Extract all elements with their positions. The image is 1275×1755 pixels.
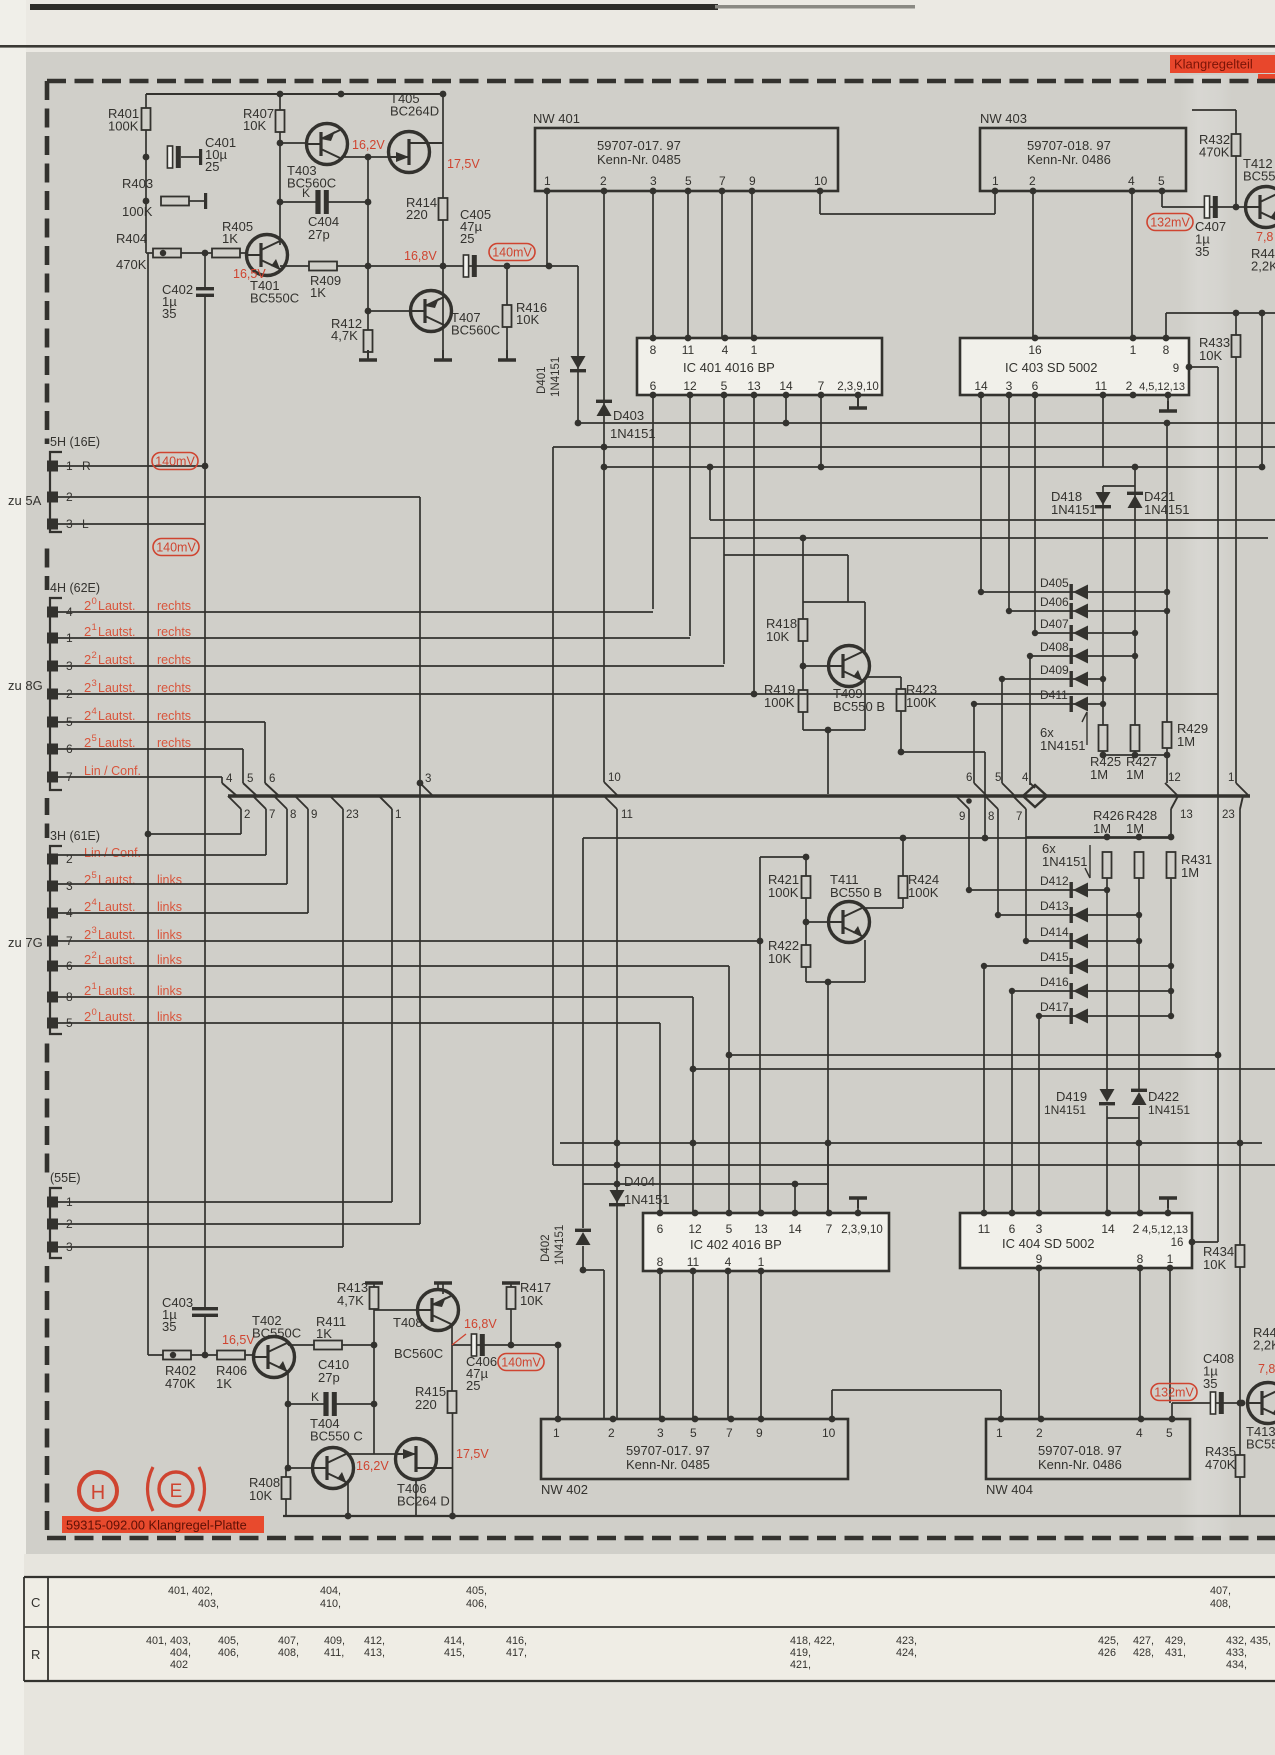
svg-text:1N4151: 1N4151	[1040, 738, 1086, 753]
wire C401 right	[181, 156, 199, 158]
ground IC403	[1159, 401, 1177, 411]
svg-text:100K: 100K	[908, 885, 939, 900]
wire D419-D422 tie row	[1107, 1117, 1139, 1119]
pin dot IC403 bottom x1035	[1032, 392, 1039, 399]
connector pin 4H.3	[47, 661, 58, 672]
svg-text:11: 11	[1095, 379, 1108, 393]
pin dot NW 1	[544, 188, 551, 195]
diode D407	[1070, 625, 1089, 641]
svg-text:5: 5	[247, 773, 253, 785]
svg-text:59707-018. 97: 59707-018. 97	[1027, 138, 1111, 153]
svg-text:13: 13	[754, 1222, 768, 1236]
signal label 2^0 Lautst links	[84, 1007, 136, 1024]
svg-text:6: 6	[650, 379, 657, 393]
svg-text:Kenn-Nr. 0485: Kenn-Nr. 0485	[597, 152, 681, 167]
junction y1165 x617	[614, 1162, 621, 1169]
connector pin 3H.6	[47, 961, 58, 972]
junction R403	[143, 198, 150, 205]
wire T411 base	[806, 921, 828, 923]
bus stub 5	[242, 749, 244, 783]
wire T408 emitter up	[442, 1284, 444, 1294]
svg-text:4,5,12,13: 4,5,12,13	[1139, 381, 1185, 393]
resistor R421	[802, 876, 811, 898]
ground under R412	[359, 350, 377, 360]
svg-text:100K: 100K	[906, 695, 937, 710]
pin dot IC404 bottom x1039	[1036, 1265, 1043, 1272]
junction R input	[202, 463, 209, 470]
svg-text:D417: D417	[1040, 1000, 1069, 1014]
svg-text:140mV: 140mV	[155, 454, 195, 468]
wire NW403 pin5 down	[1161, 191, 1163, 207]
svg-text:D403: D403	[613, 408, 644, 423]
wire R425 bottom	[1102, 751, 1104, 755]
wire D402 col upper	[582, 838, 584, 1228]
svg-text:405,: 405,	[218, 1635, 239, 1647]
svg-text:BC560C: BC560C	[287, 176, 336, 191]
svg-text:R: R	[31, 1647, 40, 1662]
wire IC401 gnd stem	[857, 395, 859, 406]
label R421	[768, 872, 799, 900]
svg-text:401, 403,: 401, 403,	[146, 1635, 191, 1647]
label R422	[768, 938, 799, 966]
svg-text:1: 1	[758, 1255, 765, 1269]
svg-text:9: 9	[1173, 363, 1179, 375]
wire C404 left	[280, 201, 316, 203]
wire line y313	[1166, 312, 1275, 314]
wire NW402 pin10 up	[831, 1390, 833, 1419]
svg-text:59707-017. 97: 59707-017. 97	[597, 138, 681, 153]
wire x443 to out	[442, 220, 444, 266]
wire R424 col	[902, 838, 904, 876]
svg-text:433,: 433,	[1226, 1647, 1247, 1659]
svg-text:5H (16E): 5H (16E)	[50, 435, 100, 449]
svg-text:3: 3	[66, 879, 73, 893]
pin dot IC404 top x984	[981, 1210, 988, 1217]
resistor R418	[799, 619, 808, 641]
svg-text:D409: D409	[1040, 663, 1069, 677]
signal label 2^3 Lautst rechts	[84, 678, 136, 695]
wire x1262 col	[1261, 313, 1263, 467]
pin dot IC402 top x761	[758, 1210, 765, 1217]
svg-text:16,8V: 16,8V	[404, 249, 437, 263]
connector pin 5H.1	[47, 461, 58, 472]
wire R432 col bottom	[1235, 156, 1237, 207]
label R403 value	[122, 204, 153, 219]
wire C410 col to T406 base	[373, 1404, 375, 1454]
junction D417 left	[1036, 1013, 1042, 1019]
junction x148-834	[145, 831, 152, 838]
label R427	[1126, 754, 1157, 782]
label R435	[1205, 1444, 1236, 1472]
wire R427 bottom	[1134, 751, 1136, 755]
resistor R401	[142, 108, 151, 130]
wire R424 bottom	[902, 898, 904, 908]
junction D411 right	[1100, 701, 1106, 707]
svg-text:13: 13	[747, 379, 761, 393]
svg-text:59315-092.00 Klangregel-Platt: 59315-092.00 Klangregel-Platte	[66, 1518, 247, 1533]
terminal bar R403	[204, 193, 207, 209]
label R423	[906, 682, 937, 710]
transistor T406	[396, 1439, 453, 1480]
wire R423 col bottom	[900, 711, 902, 752]
junction node input R	[202, 250, 209, 257]
svg-text:Klangregelteil: Klangregelteil	[1174, 57, 1253, 72]
label R425	[1090, 754, 1121, 782]
svg-text:NW 403: NW 403	[980, 111, 1027, 126]
wire x368 vertical	[367, 157, 369, 330]
stamp part number bar	[62, 1516, 264, 1533]
red banner Klangregelteil	[1170, 55, 1275, 79]
wire row D416	[1012, 990, 1171, 992]
svg-text:409,: 409,	[324, 1635, 345, 1647]
wire bottom rail	[283, 1515, 1275, 1517]
svg-text:4H (62E): 4H (62E)	[50, 581, 100, 595]
pin dot IC403 top x1133	[1130, 335, 1137, 342]
svg-text:zu 7G: zu 7G	[8, 935, 43, 950]
label T404	[310, 1416, 363, 1444]
wire x148 long column	[147, 253, 149, 1355]
network block NW403	[980, 128, 1186, 191]
wire NW401 pin1 col	[546, 191, 548, 266]
wire R416 gnd	[506, 327, 508, 350]
wire x420 long column	[419, 497, 421, 1224]
connector pin 4H.5	[47, 717, 58, 728]
wire R422 bottom	[805, 967, 807, 982]
wire C407 row	[1162, 206, 1245, 208]
wire x1107 lower	[1106, 1118, 1108, 1213]
svg-text:6: 6	[1032, 379, 1039, 393]
network block NW402	[541, 1419, 848, 1479]
bus diamond	[1023, 785, 1047, 807]
junction x828-982	[825, 979, 832, 986]
wire row y755	[1103, 754, 1167, 756]
svg-text:5: 5	[690, 1426, 697, 1440]
wire NW402 pin1 col	[557, 1345, 559, 1419]
capacitor C406	[471, 1334, 484, 1356]
ground IC401	[849, 398, 867, 408]
junction rail-R414	[440, 91, 447, 98]
transistor T408	[418, 1290, 459, 1331]
wire IC403 pin6 col	[1034, 395, 1036, 633]
wire 5H pin3 row L	[58, 523, 205, 525]
svg-text:411,: 411,	[324, 1647, 344, 1659]
svg-text:BC560C: BC560C	[394, 1346, 443, 1361]
svg-text:1: 1	[92, 981, 97, 992]
wire IC403 pin8 up	[1165, 313, 1167, 338]
wire row 2^2 links	[58, 965, 729, 967]
svg-text:1M: 1M	[1090, 767, 1108, 782]
wire R419 bottom	[802, 712, 804, 730]
wire stub2 jog	[148, 833, 241, 835]
svg-text:132mV: 132mV	[1150, 215, 1190, 229]
wire column x205 upper	[204, 253, 206, 289]
resistor R427	[1131, 725, 1140, 751]
capacitor C408	[1210, 1392, 1223, 1414]
resistor R402	[163, 1351, 191, 1360]
wire row 2^4 links	[58, 912, 308, 914]
junction D413 left	[995, 912, 1001, 918]
svg-text:13: 13	[1180, 809, 1193, 821]
svg-text:IC 401 4016 BP: IC 401 4016 BP	[683, 360, 775, 375]
pin dot IC401 bottom x858	[855, 392, 862, 399]
pin dot IC402 top x695	[692, 1210, 699, 1217]
wire NW401-IC401 col x688	[687, 191, 689, 338]
wire IC402 pin6 col	[659, 1023, 661, 1213]
wire line y1143	[560, 1142, 1262, 1144]
ic block IC401 4016BP	[637, 338, 882, 395]
svg-text:2: 2	[608, 1426, 615, 1440]
svg-text:419,: 419,	[790, 1647, 811, 1659]
svg-text:D402: D402	[540, 1235, 552, 1263]
resistor R434	[1236, 1245, 1245, 1267]
wire NW401-IC401 col x752	[751, 191, 753, 338]
svg-text:1: 1	[1167, 1252, 1174, 1266]
svg-text:9: 9	[749, 174, 756, 188]
svg-text:4,7K: 4,7K	[331, 328, 358, 343]
junction D408 left	[1027, 653, 1033, 659]
bus stub 10	[604, 782, 618, 796]
svg-text:5: 5	[92, 733, 97, 744]
svg-text:3: 3	[657, 1426, 664, 1440]
svg-text:links: links	[157, 928, 182, 942]
junction y837 b	[1136, 834, 1143, 841]
wire row D414	[1026, 940, 1139, 942]
junction T407 base	[365, 308, 372, 315]
label D418 value	[1051, 502, 1097, 517]
svg-text:0: 0	[92, 596, 97, 607]
svg-text:7,8: 7,8	[1256, 230, 1273, 244]
wire R411 row	[288, 1344, 374, 1346]
wire T404-T406 link	[347, 1453, 396, 1455]
resistor R422	[802, 945, 811, 967]
wire base row T402	[148, 1354, 253, 1356]
label D418	[1051, 489, 1082, 504]
pin dot IC404 top x1140	[1137, 1210, 1144, 1217]
svg-text:35: 35	[1195, 244, 1209, 259]
pin dot NW 9	[749, 188, 756, 195]
connector pin 3H.7	[47, 936, 58, 947]
pin dot IC402 bottom x660	[657, 1268, 664, 1275]
svg-text:7,8: 7,8	[1258, 1362, 1275, 1376]
svg-text:10K: 10K	[520, 1293, 543, 1308]
wire x848 to T409	[847, 555, 849, 602]
pin dot NW bottom n4	[1138, 1416, 1145, 1423]
wire row 2^0 links	[58, 1022, 660, 1024]
wire T411 emitter col	[864, 940, 866, 982]
svg-text:1: 1	[996, 1426, 1003, 1440]
label zu 5A	[8, 493, 42, 508]
transistor T404	[313, 1448, 354, 1489]
junction T409 base	[800, 663, 807, 670]
svg-text:100K: 100K	[122, 204, 153, 219]
pin dot NW bottom 10	[829, 1416, 836, 1423]
transistor T412	[1246, 187, 1275, 228]
junction T411 base	[803, 919, 810, 926]
svg-text:3: 3	[1006, 379, 1013, 393]
pin dot NW 10	[817, 188, 824, 195]
junction R414 bottom	[440, 263, 447, 270]
pin dot IC404 bottom x1140	[1137, 1265, 1144, 1272]
wire NW402 pin3 col	[659, 1271, 661, 1419]
svg-text:1K: 1K	[216, 1376, 232, 1391]
svg-text:415,: 415,	[444, 1647, 465, 1659]
svg-text:rechts: rechts	[157, 736, 191, 750]
bus stub 9 right	[956, 796, 969, 809]
transistor T409	[829, 646, 870, 687]
svg-text:8: 8	[290, 809, 296, 821]
junction C401	[143, 154, 150, 161]
junction D414 left	[1023, 938, 1029, 944]
junction x368 top	[365, 154, 372, 161]
svg-text:100K: 100K	[768, 885, 799, 900]
junction x374-1345	[371, 1342, 378, 1349]
junction C404 right	[365, 199, 372, 206]
svg-text:3: 3	[425, 773, 431, 785]
svg-text:59707-018. 97: 59707-018. 97	[1038, 1443, 1122, 1458]
dashed schematic border	[47, 81, 1275, 1538]
label R403	[122, 176, 153, 191]
svg-text:links: links	[157, 953, 182, 967]
label T401	[250, 278, 299, 306]
junction y1055 x1218	[1215, 1052, 1222, 1059]
pin dot IC401 bottom x786	[783, 392, 790, 399]
wire 5H pin1 row R	[58, 465, 205, 467]
bus stub 2	[228, 796, 241, 809]
junction T413 node	[1239, 1400, 1246, 1407]
wire IC403 pin11 col	[1102, 395, 1104, 467]
svg-text:401, 402,: 401, 402,	[168, 1585, 213, 1597]
junction row 2^3 links T411	[757, 938, 764, 945]
wire IC402 pin7 col	[827, 1143, 829, 1213]
junction x903-838	[900, 835, 907, 842]
svg-text:BC550 B: BC550 B	[833, 699, 885, 714]
junction y1184 x617	[614, 1181, 621, 1188]
junction y1184 x795	[792, 1181, 799, 1188]
wire line y520	[710, 519, 1275, 521]
connector pin 3H.3	[47, 881, 58, 892]
wire T408 top col	[437, 1283, 439, 1290]
wire line y1069	[693, 1068, 1275, 1070]
svg-text:7: 7	[818, 379, 825, 393]
svg-text:404,: 404,	[320, 1585, 341, 1597]
svg-text:9: 9	[756, 1426, 763, 1440]
wire x604 to NW402	[603, 1270, 605, 1419]
label R401	[108, 106, 139, 134]
label R406	[216, 1363, 247, 1378]
label 6x 1N4151 top	[1040, 725, 1086, 753]
label C410	[318, 1357, 349, 1385]
wire R431 col	[1170, 878, 1172, 1016]
pin dot IC401 bottom x754	[751, 392, 758, 399]
connector pin 55E.3	[47, 1242, 58, 1253]
wire T402 collector col	[287, 1344, 289, 1345]
svg-text:IC 403 SD 5002: IC 403 SD 5002	[1005, 360, 1098, 375]
svg-text:Lautst.: Lautst.	[98, 653, 136, 667]
svg-text:402: 402	[170, 1659, 188, 1671]
label C408	[1203, 1351, 1234, 1391]
wire R417 col	[510, 1309, 512, 1345]
junction y1143 x1240	[1237, 1140, 1244, 1147]
svg-text:432, 435,: 432, 435,	[1226, 1635, 1271, 1647]
svg-text:1K: 1K	[310, 285, 326, 300]
arrow 6x bottom	[1089, 845, 1091, 878]
svg-text:Lautst.: Lautst.	[98, 709, 136, 723]
svg-text:Lautst.: Lautst.	[98, 1010, 136, 1024]
pin dot IC401 bottom x724	[721, 392, 728, 399]
svg-text:R403: R403	[122, 176, 153, 191]
ground above T408	[434, 1281, 452, 1284]
pin dot IC403 top x1035	[1032, 335, 1039, 342]
label D421	[1144, 489, 1175, 504]
wire NW402 pin7 col	[727, 1271, 729, 1419]
wire IC403 pin9 row	[1189, 366, 1218, 368]
wire row D411	[974, 703, 1103, 705]
svg-text:10K: 10K	[249, 1488, 272, 1503]
wire NW404 pin1 up	[1000, 1390, 1002, 1419]
wire NW403 pin4 col	[1131, 191, 1133, 338]
junction y313 right	[1259, 310, 1266, 317]
wire T401 collector column	[279, 94, 281, 245]
label T408	[393, 1315, 423, 1330]
signal label 2^5 Lautst rechts	[84, 733, 136, 750]
transistor T401	[247, 235, 288, 276]
wire IC402 pin14 col	[794, 1184, 796, 1213]
junction rail-T405	[338, 91, 345, 98]
connector pin 4H.7	[47, 772, 58, 783]
connector pin 5H.3	[47, 519, 58, 530]
wire x443 down	[442, 94, 444, 198]
svg-text:2: 2	[84, 899, 91, 914]
wire R435 bottom	[1239, 1477, 1241, 1516]
svg-text:2: 2	[244, 809, 250, 821]
wire 55E row2	[58, 1223, 420, 1225]
page edge bar top	[30, 4, 718, 10]
junction D416 left	[1009, 988, 1015, 994]
junction y313 R433	[1233, 310, 1240, 317]
wire T411 collector row	[864, 907, 903, 909]
wire T409 box top	[803, 601, 865, 603]
wire R418-base	[802, 641, 804, 690]
pin dot NW bottom 7	[728, 1416, 735, 1423]
wire row lin/conf links	[58, 854, 266, 856]
label T405	[390, 91, 439, 119]
resistor R428	[1135, 852, 1144, 878]
wire R408 bottom	[285, 1499, 287, 1516]
label NW403	[980, 111, 1027, 126]
wire R418 col top	[802, 538, 804, 619]
svg-text:2,3,9,10: 2,3,9,10	[837, 381, 879, 393]
wire row 2^1 links	[58, 996, 693, 998]
wire T407 emitter	[442, 266, 444, 350]
wire NW401 pin10 down	[819, 191, 821, 214]
svg-text:NW 402: NW 402	[541, 1482, 588, 1497]
wire link y214	[820, 213, 995, 215]
wire x760 col	[759, 857, 761, 1213]
wire y110 stub	[1192, 109, 1236, 111]
signal label 2^4 Lautst links	[84, 897, 136, 914]
wire base row T401	[146, 252, 247, 254]
stamp E	[148, 1467, 205, 1511]
label R412	[331, 316, 362, 343]
junction R435 top	[1237, 1400, 1244, 1407]
label C402	[162, 282, 193, 321]
svg-text:zu 8G: zu 8G	[8, 678, 43, 693]
bus stub 7	[253, 796, 266, 809]
wire T409 emitter col	[864, 681, 866, 730]
svg-text:12: 12	[688, 1222, 702, 1236]
junction NW402 pin1 col	[555, 1342, 562, 1349]
connector 5H (16E)	[40, 435, 100, 540]
